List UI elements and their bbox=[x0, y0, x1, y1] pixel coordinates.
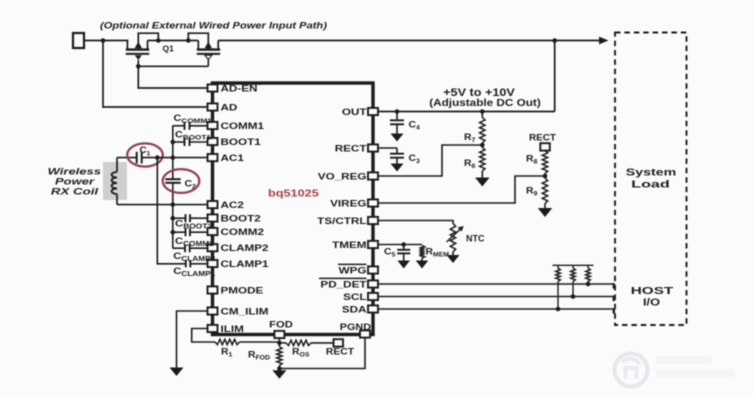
ground (R6) bbox=[475, 178, 490, 187]
node: C4 tap bbox=[395, 109, 400, 114]
label R6 bbox=[464, 159, 476, 170]
svg-text:VO_REG: VO_REG bbox=[318, 173, 367, 182]
svg-text:FOD: FOD bbox=[269, 320, 293, 330]
watermark logo (faint) bbox=[615, 354, 735, 387]
pin label OUT bbox=[342, 108, 367, 117]
node: BOOT2 tap bbox=[171, 216, 176, 221]
pin BOOT2 bbox=[208, 214, 218, 221]
label C_COMM1 bbox=[174, 114, 212, 125]
wire: coil top to C1 bbox=[117, 157, 137, 159]
net flag RECT (divider) bbox=[529, 133, 556, 151]
wire: OUT line bbox=[379, 111, 555, 113]
svg-text:TMEM: TMEM bbox=[332, 241, 366, 250]
wire: R_FOD to ground node bbox=[278, 366, 280, 369]
svg-text:(Optional External Wired Power: (Optional External Wired Power Input Pat… bbox=[100, 21, 328, 31]
wire: divider to VO_REG bbox=[379, 143, 483, 176]
pin label CLAMP2 bbox=[221, 244, 269, 253]
label C1 bbox=[140, 146, 151, 158]
pin label VO_REG bbox=[318, 173, 367, 182]
capacitor C1 (series) bbox=[137, 152, 142, 164]
label NTC bbox=[466, 234, 485, 244]
overline AD-EN bbox=[222, 83, 263, 85]
wire: R6 to ground bbox=[481, 171, 483, 178]
ground (C3) bbox=[391, 164, 404, 172]
node: COMM2 tap bbox=[171, 230, 176, 235]
pin label SCL bbox=[343, 293, 367, 302]
pin AC2 bbox=[208, 201, 218, 208]
node: R7/R6 junction bbox=[480, 143, 485, 148]
ground (NTC) bbox=[447, 255, 460, 263]
connector J1 (external wired power input) bbox=[73, 33, 84, 48]
svg-text:Power: Power bbox=[55, 177, 95, 187]
resistor pull-up 3 (PD_DET) bbox=[586, 265, 591, 284]
pin SDA bbox=[368, 305, 378, 312]
label R_MEM bbox=[426, 247, 450, 258]
capacitor C5 bbox=[397, 245, 410, 261]
ground (C4) bbox=[391, 134, 404, 142]
label C5 bbox=[384, 247, 396, 258]
svg-text:Q1: Q1 bbox=[163, 44, 175, 54]
pin CM_ILIM bbox=[208, 307, 218, 314]
thermistor NTC bbox=[447, 224, 464, 253]
pin FOD bbox=[274, 331, 284, 338]
capacitor C_CLAMP1 bbox=[186, 260, 207, 267]
wire: FOD node to R_OS bbox=[279, 342, 286, 344]
capacitor C_COMM2 bbox=[173, 228, 207, 236]
pin label PMODE bbox=[221, 287, 264, 296]
pin label CLAMP1 bbox=[221, 260, 269, 269]
node: gate bus junction bbox=[136, 64, 141, 69]
pin label BOOT2 bbox=[221, 215, 261, 224]
svg-text:COMM2: COMM2 bbox=[221, 228, 265, 237]
pin AC1 bbox=[208, 154, 218, 161]
pin SCL bbox=[368, 293, 378, 300]
wire: Q1 gate bus bbox=[138, 60, 208, 67]
node: BOOT1 tap bbox=[171, 140, 176, 145]
wire Q1-A to Q1-B bbox=[148, 40, 190, 42]
wire: NTC to ground bbox=[452, 252, 454, 255]
node: FOD junction bbox=[277, 341, 282, 346]
label wireless power RX coil bbox=[48, 167, 101, 197]
wire: RMEM to ground bbox=[421, 258, 423, 261]
label C_COMM2 bbox=[175, 236, 214, 247]
node: top rail / OUT drop junction bbox=[552, 38, 557, 43]
system load / host io dashed box bbox=[615, 33, 687, 326]
resistor pull-up 2 (SCL) bbox=[571, 265, 576, 296]
svg-text:TS/CTRL: TS/CTRL bbox=[317, 217, 367, 226]
node: AC1 x bus junction bbox=[171, 155, 176, 160]
svg-text:ILIM: ILIM bbox=[221, 325, 244, 334]
svg-text:WPG: WPG bbox=[339, 267, 367, 276]
label C_BOOT1 bbox=[175, 130, 211, 141]
ground (FOD/PGND) bbox=[272, 370, 286, 379]
pin label TS/CTRL bbox=[317, 217, 367, 226]
svg-text:BOOT1: BOOT1 bbox=[221, 138, 261, 147]
label: optional external wired power input path bbox=[100, 21, 328, 31]
svg-text:Load: Load bbox=[631, 178, 669, 189]
pin label ILIM bbox=[221, 325, 244, 334]
svg-text:NTC: NTC bbox=[466, 234, 485, 244]
wire: gate bus to AD-EN pin bbox=[138, 66, 206, 88]
capacitor C_COMM1 bbox=[173, 122, 207, 130]
ground (CM_ILIM) bbox=[170, 368, 184, 377]
node: R8/R9 junction bbox=[543, 174, 548, 179]
resistor R7 bbox=[480, 118, 485, 144]
node: R7 tap bbox=[480, 109, 485, 114]
capacitor C_BOOT1 bbox=[173, 138, 207, 146]
svg-text:AD-EN: AD-EN bbox=[221, 85, 258, 94]
svg-text:VIREG: VIREG bbox=[330, 200, 366, 209]
pin CLAMP2 bbox=[208, 244, 218, 251]
wire: R1 to FOD node bbox=[240, 341, 280, 343]
label C_BOOT2 bbox=[175, 219, 212, 230]
pin label PGND bbox=[340, 323, 371, 333]
label R8 bbox=[526, 154, 538, 165]
label adjustable DC out bbox=[429, 97, 541, 108]
red circle highlight C1 bbox=[127, 143, 163, 166]
svg-text:PMODE: PMODE bbox=[221, 287, 264, 296]
wire: SCL line to host bbox=[379, 296, 614, 301]
wire: AC1 node down to C_CLAMP1 bbox=[157, 158, 186, 264]
IC U1 bq51025 body bbox=[213, 83, 374, 335]
resistor R9 bbox=[542, 178, 547, 204]
resistor R1 bbox=[215, 339, 240, 344]
label R1 bbox=[221, 347, 233, 358]
svg-text:CLAMP1: CLAMP1 bbox=[221, 260, 269, 269]
wire: R_OS to RECT net bbox=[311, 342, 334, 344]
pin label AD bbox=[221, 104, 238, 113]
capacitor C3 bbox=[390, 148, 404, 164]
pin VO_REG bbox=[368, 172, 378, 179]
pin RECT bbox=[368, 144, 378, 151]
svg-text:CM_ILIM: CM_ILIM bbox=[221, 308, 269, 317]
ground (RMEM) bbox=[416, 261, 429, 269]
label C_CLAMP2 bbox=[173, 251, 215, 262]
svg-text:HOST: HOST bbox=[631, 285, 674, 297]
label bq51025 bbox=[268, 189, 320, 199]
node: FOD ground junction bbox=[277, 366, 282, 371]
wire: bus COMM1/BOOT1 to AC1 bbox=[172, 126, 174, 158]
wire: rail drop to OUT line bbox=[554, 41, 556, 112]
svg-text:BOOT2: BOOT2 bbox=[221, 215, 261, 224]
inductor RX coil bbox=[112, 158, 117, 205]
label R9 bbox=[526, 186, 538, 197]
pin label PD_DET bbox=[320, 281, 367, 290]
pin COMM1 bbox=[208, 122, 218, 129]
pin label RECT bbox=[335, 145, 368, 154]
wire: pull-up rail bbox=[553, 264, 594, 266]
wire: TS/CTRL to NTC bbox=[379, 221, 454, 224]
svg-text:SDA: SDA bbox=[342, 306, 367, 315]
wire: C1 to AC1 pin bbox=[142, 157, 207, 159]
label C_CLAMP1 bbox=[173, 266, 216, 277]
transistor Q1 FET B (PMOS pass) bbox=[188, 33, 220, 59]
capacitor C2 (parallel) bbox=[165, 158, 180, 205]
node: SCL pull-up junction bbox=[571, 294, 576, 299]
overline WPG bbox=[338, 263, 367, 265]
pin label AC1 bbox=[221, 154, 245, 163]
wire: bus AC2 down to CLAMP2 bbox=[172, 205, 174, 249]
pin PD_DET bbox=[368, 280, 378, 287]
wire: PGND to ground bbox=[279, 338, 365, 369]
wire: SDA line to host bbox=[379, 308, 614, 313]
wire: OUT to R7 bbox=[481, 112, 483, 118]
wire: arrow into system load bbox=[555, 37, 609, 45]
node: PD_DET pull-up junction bbox=[586, 282, 591, 287]
net flag RECT (bottom) bbox=[334, 339, 344, 346]
svg-text:bq51025: bq51025 bbox=[268, 189, 320, 199]
label host io bbox=[631, 285, 674, 309]
node: SDA pull-up junction bbox=[556, 307, 561, 312]
svg-text:PGND: PGND bbox=[340, 323, 371, 333]
label +5V to +10V bbox=[443, 86, 515, 99]
node: AC1 node after C1 bbox=[155, 155, 160, 160]
svg-text:PD_DET: PD_DET bbox=[320, 281, 367, 290]
pin label BOOT1 bbox=[221, 138, 261, 147]
pin label AC2 bbox=[221, 201, 245, 210]
pin label FOD bbox=[269, 320, 293, 330]
resistor pull-up 1 (SDA) bbox=[556, 265, 561, 309]
pin AD-EN bbox=[208, 84, 218, 91]
wire: TMEM line bbox=[379, 244, 423, 246]
pin TMEM bbox=[368, 241, 378, 248]
svg-text:RX Coil: RX Coil bbox=[51, 187, 99, 197]
red circle highlight C2 bbox=[163, 169, 200, 193]
capacitor C4 bbox=[390, 112, 404, 134]
svg-text:AC2: AC2 bbox=[221, 201, 245, 210]
wire: top rail to system load bbox=[218, 40, 555, 42]
pin PMODE bbox=[208, 286, 218, 293]
pin CLAMP1 bbox=[208, 260, 218, 267]
overline PD_DET bbox=[319, 277, 367, 279]
pin label COMM1 bbox=[221, 122, 265, 131]
pin label WPG bbox=[339, 267, 367, 276]
wire: PD_DET line to host bbox=[379, 283, 614, 288]
node: C5 tap bbox=[401, 242, 406, 247]
pin AD bbox=[208, 103, 218, 110]
svg-text:I/O: I/O bbox=[643, 298, 660, 309]
wire: junction to VIREG bbox=[379, 174, 546, 204]
coil shading bbox=[103, 162, 127, 200]
wire: J1 branch to AD pin bbox=[103, 41, 207, 108]
svg-text:RECT: RECT bbox=[529, 133, 556, 143]
resistor R8 bbox=[542, 151, 547, 174]
pin label TMEM bbox=[332, 241, 366, 250]
resistor R_OS bbox=[286, 340, 311, 345]
ground (C5) bbox=[397, 261, 410, 269]
label R_FOD bbox=[248, 350, 270, 361]
pin BOOT1 bbox=[208, 138, 218, 145]
transistor Q1 FET A (PMOS pass) bbox=[126, 33, 159, 60]
svg-text:AC1: AC1 bbox=[221, 154, 245, 163]
wire J1 to Q1 FET A bbox=[84, 40, 128, 42]
pin PGND (bottom) bbox=[360, 330, 370, 337]
svg-text:OUT: OUT bbox=[342, 108, 367, 117]
node: AD branch junction bbox=[101, 38, 106, 43]
svg-text:(Adjustable DC Out): (Adjustable DC Out) bbox=[429, 97, 541, 108]
ground (R9) bbox=[538, 208, 553, 217]
node: rail junction at Q1-B bbox=[186, 38, 191, 43]
svg-text:SCL: SCL bbox=[343, 293, 367, 302]
pin label AD-EN bbox=[221, 85, 258, 94]
label R_OS bbox=[292, 347, 310, 358]
pin WPG bbox=[368, 266, 378, 273]
resistor R6 bbox=[480, 148, 485, 172]
pin label COMM2 bbox=[221, 228, 265, 237]
label Q1 bbox=[163, 44, 175, 54]
svg-text:RECT: RECT bbox=[326, 347, 354, 357]
pin label CM_ILIM bbox=[221, 308, 269, 317]
wire: CM_ILIM to ground bbox=[177, 311, 207, 368]
resistor R_MEM bbox=[419, 246, 424, 259]
node: AC2 x bus junction bbox=[171, 202, 176, 207]
label C4 bbox=[409, 120, 421, 131]
label C3 bbox=[409, 154, 421, 165]
capacitor C_BOOT2 bbox=[173, 214, 207, 222]
svg-text:Wireless: Wireless bbox=[48, 167, 101, 177]
resistor R_FOD bbox=[277, 347, 282, 366]
pin label SDA bbox=[342, 306, 367, 315]
label RECT (bottom) bbox=[326, 347, 354, 357]
node: Q1-A drain to rail bbox=[156, 38, 161, 43]
svg-text:RECT: RECT bbox=[335, 145, 368, 154]
label R7 bbox=[464, 133, 476, 144]
svg-text:AD: AD bbox=[221, 104, 238, 113]
wire: RECT pin to C3 bbox=[379, 147, 398, 149]
svg-text:CLAMP2: CLAMP2 bbox=[221, 244, 269, 253]
wire: coil bottom AC2 line bbox=[117, 204, 207, 206]
svg-text:COMM1: COMM1 bbox=[221, 122, 265, 131]
pin TS/CTRL bbox=[368, 217, 378, 224]
pin COMM2 bbox=[208, 228, 218, 235]
pin OUT bbox=[368, 108, 378, 115]
svg-text:System: System bbox=[626, 166, 676, 178]
label C2 bbox=[185, 179, 197, 191]
pin label VIREG bbox=[330, 200, 366, 209]
capacitor C_CLAMP2 bbox=[173, 244, 207, 252]
wire: ILIM loop to R1 bbox=[192, 329, 215, 343]
pin VIREG bbox=[368, 199, 378, 206]
wire: R9 to ground bbox=[544, 204, 546, 209]
label system load bbox=[626, 166, 676, 189]
pin ILIM bbox=[208, 325, 218, 332]
wire: FOD pin drop bbox=[278, 338, 280, 347]
